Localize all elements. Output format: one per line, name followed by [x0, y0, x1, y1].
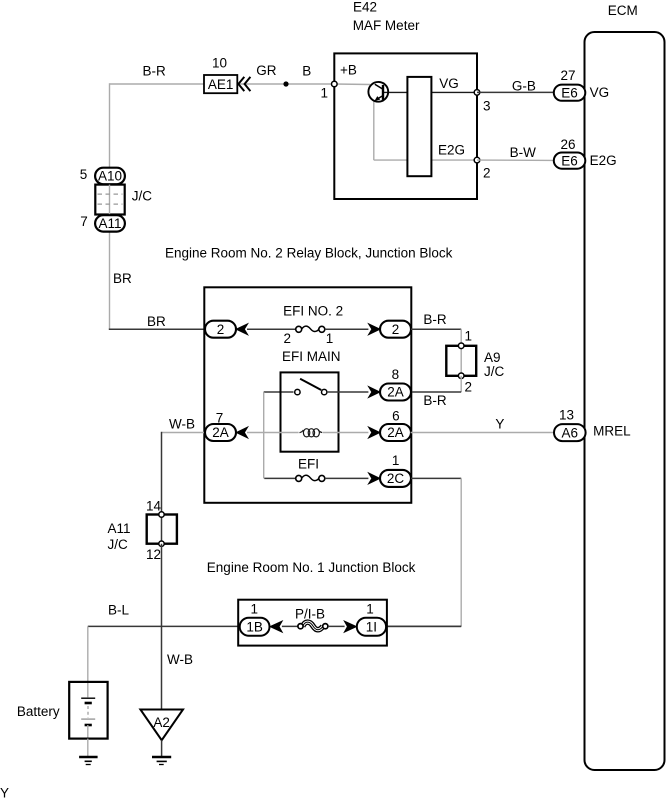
relay EFI MAIN box — [281, 372, 339, 451]
fuse EFI — [296, 475, 325, 481]
wire P/I-B right — [329, 625, 345, 627]
svg-text:B-R: B-R — [423, 312, 447, 327]
svg-text:AE1: AE1 — [208, 77, 234, 92]
ground battery — [79, 757, 98, 765]
wire W-B vertical down — [161, 432, 163, 515]
svg-text:2A: 2A — [212, 425, 229, 440]
svg-text:J/C: J/C — [484, 364, 505, 379]
relay switch contacts — [295, 379, 327, 395]
wire B-L — [88, 625, 240, 627]
svg-text:B: B — [302, 64, 311, 79]
svg-text:B-R: B-R — [423, 393, 447, 408]
arrow left row3 — [237, 427, 248, 437]
svg-text:E42: E42 — [353, 0, 377, 15]
svg-text:E2G: E2G — [590, 153, 617, 168]
arrow left 1B — [270, 621, 282, 632]
relay block box — [204, 287, 411, 503]
svg-text:J/C: J/C — [108, 537, 129, 552]
svg-text:26: 26 — [560, 137, 575, 152]
svg-text:10: 10 — [212, 56, 227, 71]
svg-text:2: 2 — [217, 322, 225, 337]
terminal oval 2A row2 — [380, 384, 411, 401]
svg-text:+B: +B — [340, 62, 357, 77]
svg-text:B-R: B-R — [143, 64, 167, 79]
wire EFI row right — [325, 477, 369, 479]
transistor (hot-wire element) — [368, 82, 388, 102]
svg-text:B-W: B-W — [510, 145, 536, 160]
svg-text:6: 6 — [392, 409, 400, 424]
svg-text:EFI NO. 2: EFI NO. 2 — [283, 304, 343, 319]
svg-text:1: 1 — [392, 453, 400, 468]
svg-text:A6: A6 — [562, 425, 579, 440]
svg-text:MREL: MREL — [593, 424, 631, 439]
svg-text:27: 27 — [560, 68, 575, 83]
wire battery to ground — [87, 739, 89, 758]
connector AE1 — [204, 75, 237, 93]
arrow left row1 — [237, 324, 248, 334]
svg-text:BR: BR — [113, 271, 132, 286]
wire row1 right — [325, 328, 369, 330]
wire A2 to ground — [161, 740, 163, 757]
ECM block — [585, 32, 665, 770]
svg-text:13: 13 — [559, 408, 574, 423]
svg-text:W-B: W-B — [167, 652, 193, 667]
terminal oval 2A left — [205, 424, 236, 441]
wire battery vertical — [87, 626, 89, 697]
arrow right 1I — [345, 621, 357, 632]
svg-text:B-L: B-L — [108, 603, 130, 618]
svg-text:5: 5 — [80, 167, 88, 182]
svg-text:2: 2 — [392, 322, 400, 337]
svg-text:2: 2 — [483, 166, 491, 181]
terminal oval 2 left — [205, 321, 236, 338]
svg-text:8: 8 — [392, 367, 400, 382]
terminal oval 2 right — [380, 321, 411, 338]
wire B-R horizontal top — [110, 83, 335, 85]
terminal oval 2C — [380, 470, 411, 487]
svg-text:12: 12 — [146, 547, 161, 562]
junction connector A9 — [446, 343, 476, 379]
wire G-B — [477, 91, 554, 93]
wire switch row right — [327, 391, 369, 393]
wire 1I out — [386, 625, 461, 627]
svg-text:MAF Meter: MAF Meter — [353, 18, 420, 33]
svg-text:VG: VG — [590, 85, 610, 100]
svg-text:Y: Y — [0, 786, 9, 798]
connector A10 — [95, 168, 125, 185]
connector A6 — [554, 424, 586, 441]
connector E6 (E2G) — [554, 153, 586, 169]
svg-text:1B: 1B — [246, 620, 263, 635]
svg-text:1I: 1I — [366, 620, 377, 635]
arrow right row3 — [369, 427, 380, 437]
wire B-R vertical left — [109, 83, 111, 329]
svg-text:1: 1 — [465, 329, 473, 344]
arrow right row4 — [369, 473, 380, 483]
wire row1 left — [247, 328, 296, 330]
svg-text:G-B: G-B — [512, 79, 536, 94]
wire coil left — [247, 432, 299, 434]
svg-text:ECM: ECM — [608, 3, 638, 18]
svg-text:14: 14 — [146, 499, 162, 514]
wire BR into relay block — [109, 328, 205, 330]
MAF internal emitter drop wire — [374, 101, 477, 160]
svg-text:W-B: W-B — [169, 417, 195, 432]
svg-text:E2G: E2G — [438, 143, 465, 158]
svg-text:A11: A11 — [98, 216, 121, 231]
arrow right row1 — [369, 324, 380, 334]
junction connector body J/C — [95, 185, 124, 215]
relay coil — [300, 429, 323, 437]
terminal oval 2A row3 — [380, 424, 411, 441]
svg-text:J/C: J/C — [132, 189, 153, 204]
svg-text:1: 1 — [326, 331, 334, 346]
terminal oval 1B — [240, 618, 270, 636]
wire EFI row left — [264, 477, 296, 479]
svg-text:EFI: EFI — [298, 456, 319, 471]
svg-text:2C: 2C — [387, 471, 405, 486]
MAF internal VG wire — [383, 91, 477, 93]
wire A9 to 2A — [411, 376, 461, 392]
pin circle 1 — [332, 81, 338, 87]
fuse EFI NO. 2 — [296, 326, 325, 332]
svg-text:Engine Room No. 2 Relay Block,: Engine Room No. 2 Relay Block, Junction … — [165, 245, 453, 260]
wire to A9 — [411, 329, 461, 346]
connector E6 (VG) — [554, 85, 586, 101]
terminal oval 1I — [357, 618, 386, 636]
wire W-B into relay — [162, 432, 205, 434]
svg-text:1: 1 — [321, 85, 329, 100]
pin circle 2 — [474, 157, 480, 163]
svg-text:7: 7 — [80, 214, 88, 229]
connector A11 — [95, 215, 125, 231]
svg-text:P/I-B: P/I-B — [295, 606, 325, 621]
svg-text:1: 1 — [251, 601, 259, 616]
svg-text:1: 1 — [366, 601, 374, 616]
svg-text:A9: A9 — [484, 350, 501, 365]
svg-text:3: 3 — [483, 98, 491, 113]
wire switch row left — [264, 391, 294, 393]
svg-text:A10: A10 — [98, 169, 122, 184]
junction connector A11 J/C — [147, 512, 177, 547]
wire relay drop vertical — [263, 392, 265, 478]
svg-text:E6: E6 — [561, 85, 578, 100]
wire W-B to ground triangle — [161, 544, 163, 710]
svg-text:EFI MAIN: EFI MAIN — [282, 349, 341, 364]
MAF meter internals: +B wire — [334, 83, 370, 86]
svg-text:A2: A2 — [153, 715, 170, 730]
battery box — [69, 682, 107, 739]
svg-text:VG: VG — [439, 76, 459, 91]
wire B-W — [477, 159, 554, 161]
svg-text:A11: A11 — [108, 521, 131, 536]
svg-text:Engine Room No. 1 Junction Blo: Engine Room No. 1 Junction Block — [207, 560, 416, 575]
svg-text:2A: 2A — [387, 385, 404, 400]
svg-text:2A: 2A — [387, 425, 404, 440]
svg-text:2: 2 — [284, 331, 292, 346]
arrow right row2 — [369, 387, 380, 397]
fusible link P/I-B — [298, 622, 328, 630]
MAF meter box E42 — [334, 53, 477, 199]
pin circle 3 — [474, 90, 480, 96]
wire coil right — [323, 432, 369, 434]
svg-text:GR: GR — [256, 63, 277, 78]
svg-text:BR: BR — [147, 314, 166, 329]
ground A2 — [152, 757, 171, 765]
svg-text:Y: Y — [495, 417, 504, 432]
wire Y to ECM — [411, 432, 554, 434]
junction dot — [283, 81, 288, 86]
junction block no.1 box — [238, 600, 387, 646]
sensing element rectangle — [407, 77, 431, 176]
battery cells — [81, 698, 95, 738]
connector chevrons — [238, 77, 250, 91]
wire 2C loop down — [386, 478, 461, 626]
svg-text:E6: E6 — [561, 153, 578, 168]
wire P/I-B left — [282, 625, 298, 627]
ground triangle A2 — [140, 710, 183, 741]
svg-text:Battery: Battery — [17, 704, 60, 719]
svg-text:2: 2 — [465, 379, 473, 394]
